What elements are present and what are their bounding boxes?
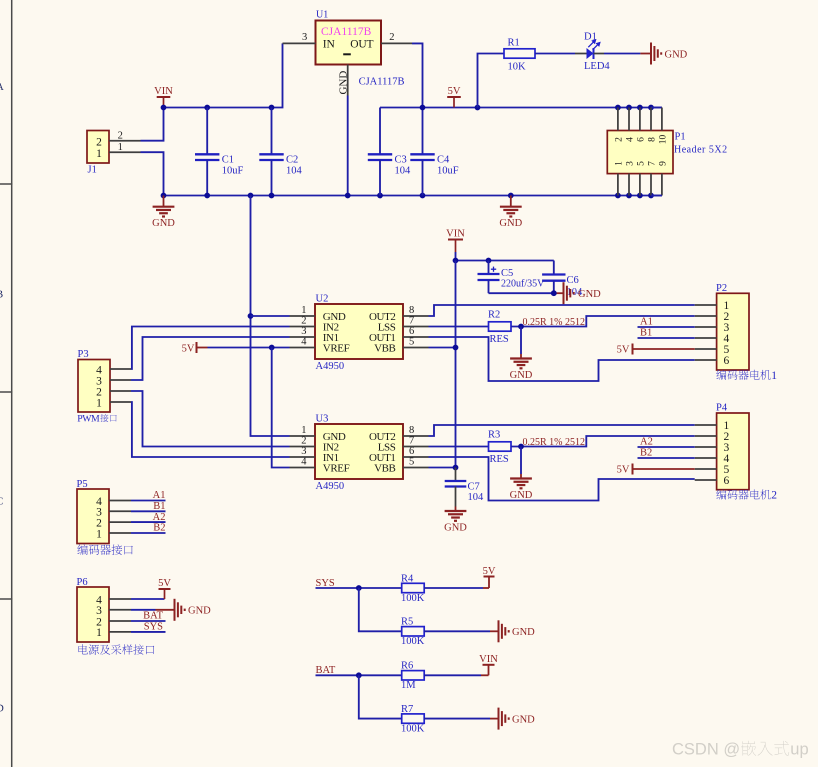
wire R1 to D1 bbox=[535, 53, 575, 55]
LED D1 LED4 bbox=[575, 32, 610, 73]
svg-text:R6: R6 bbox=[401, 661, 413, 672]
svg-text:GND: GND bbox=[499, 218, 522, 229]
sheet border vertical line bbox=[11, 0, 13, 767]
wire R3 to P4.2 bbox=[511, 436, 695, 447]
svg-text:P4: P4 bbox=[716, 403, 728, 414]
svg-text:GND: GND bbox=[578, 289, 601, 300]
svg-text:VREF: VREF bbox=[323, 342, 350, 354]
power port 5V (P4.5) bbox=[617, 464, 695, 476]
svg-text:8: 8 bbox=[409, 305, 414, 316]
wire SYS down to R5 bbox=[359, 588, 402, 631]
ground symbol R2 bbox=[510, 354, 533, 381]
svg-text:1: 1 bbox=[301, 425, 306, 436]
wire VIN down bbox=[455, 252, 457, 261]
svg-text:D: D bbox=[0, 703, 4, 715]
svg-text:5: 5 bbox=[409, 457, 414, 468]
wire R4 to 5V bbox=[424, 587, 489, 589]
label 0.25R 1% 2512 (R3) bbox=[523, 437, 586, 448]
U3 right pins 8-5 bbox=[403, 425, 429, 468]
connector P6 power/sampling bbox=[77, 577, 110, 642]
svg-text:R1: R1 bbox=[508, 38, 520, 49]
svg-text:7: 7 bbox=[409, 316, 414, 327]
wire BAT down to R7 bbox=[359, 675, 402, 718]
U1 pin 1 GND bbox=[338, 65, 350, 196]
ground symbol C7 bbox=[444, 507, 467, 534]
U1 pin 3 IN bbox=[283, 32, 316, 43]
junction VREF bbox=[269, 345, 275, 351]
wire C5/C6 bottom rail bbox=[489, 292, 564, 294]
svg-text:RES: RES bbox=[490, 334, 509, 345]
svg-text:8: 8 bbox=[648, 137, 658, 142]
U3 left pins 1-4 bbox=[290, 425, 316, 468]
svg-text:3: 3 bbox=[301, 326, 306, 337]
wire GND rail end to P1 bbox=[651, 195, 662, 197]
net label SYS wire (P6.1) bbox=[131, 622, 166, 633]
resistor R3 0.25R bbox=[488, 430, 511, 452]
svg-text:2: 2 bbox=[301, 316, 306, 327]
power port 5V (P6) bbox=[158, 578, 171, 599]
svg-text:6: 6 bbox=[409, 326, 414, 337]
svg-text:C5: C5 bbox=[501, 268, 513, 279]
svg-text:1: 1 bbox=[96, 528, 102, 540]
wire R5 to GND bar bbox=[424, 630, 499, 632]
svg-text:C: C bbox=[0, 496, 3, 508]
svg-text:GND: GND bbox=[512, 714, 535, 725]
svg-text:D1: D1 bbox=[584, 32, 597, 43]
svg-text:VIN: VIN bbox=[154, 86, 173, 97]
P4 pins bbox=[695, 425, 717, 480]
svg-text:100K: 100K bbox=[401, 636, 425, 647]
P5 pins and net label wires bbox=[109, 490, 166, 534]
power ground bar (C6) bbox=[564, 282, 602, 304]
net label SYS wire bbox=[316, 578, 402, 589]
svg-text:7: 7 bbox=[409, 436, 414, 447]
svg-text:5V: 5V bbox=[483, 566, 496, 577]
svg-text:3: 3 bbox=[96, 605, 102, 617]
wire R6 to VIN bbox=[424, 674, 489, 676]
junction U2.1 bbox=[248, 313, 254, 319]
svg-text:VBB: VBB bbox=[374, 342, 395, 354]
wire P3.1 to U3.IN1 bbox=[131, 402, 290, 457]
svg-text:CSDN @: CSDN @ bbox=[672, 741, 740, 759]
power ground bar (R5) bbox=[499, 620, 536, 642]
wire U2.OUT2 to P2.1 bbox=[429, 305, 695, 316]
svg-text:5: 5 bbox=[637, 161, 647, 166]
svg-text:2: 2 bbox=[771, 490, 777, 502]
svg-text:104: 104 bbox=[468, 492, 485, 503]
svg-text:1: 1 bbox=[771, 370, 777, 382]
svg-text:4: 4 bbox=[626, 137, 636, 142]
svg-text:5V: 5V bbox=[448, 86, 461, 97]
svg-text:U3: U3 bbox=[316, 414, 329, 425]
junction BAT bbox=[356, 672, 362, 678]
svg-text:GND: GND bbox=[665, 49, 688, 60]
svg-text:1M: 1M bbox=[401, 680, 416, 691]
wire D1 to GND bar bbox=[604, 53, 651, 55]
svg-text:1: 1 bbox=[118, 142, 123, 153]
motor driver U2 A4950 bbox=[315, 294, 403, 373]
net label RES (U2) bbox=[490, 334, 509, 345]
U2 left pins 1-4 bbox=[290, 305, 316, 348]
svg-text:5V: 5V bbox=[617, 464, 630, 475]
svg-text:B: B bbox=[0, 289, 3, 301]
svg-text:C1: C1 bbox=[222, 154, 234, 165]
svg-text:BAT: BAT bbox=[143, 611, 163, 622]
ground symbol left bbox=[152, 196, 175, 230]
svg-text:C6: C6 bbox=[567, 275, 579, 286]
svg-text:OUT: OUT bbox=[350, 38, 373, 50]
svg-text:R2: R2 bbox=[488, 310, 500, 321]
P5 label encoder interface bbox=[77, 544, 132, 555]
P2 label encoder motor 1 bbox=[716, 370, 777, 382]
J1 pin 2 bbox=[109, 130, 141, 141]
wire P6.4 to 5V bbox=[131, 598, 165, 600]
capacitor C6 104 bbox=[542, 261, 583, 299]
svg-text:P2: P2 bbox=[716, 283, 727, 294]
svg-text:1: 1 bbox=[96, 397, 102, 409]
wire 5V rail bbox=[380, 107, 662, 109]
svg-text:2: 2 bbox=[301, 436, 306, 447]
svg-text:CJA1117B: CJA1117B bbox=[359, 77, 405, 88]
power ground bar (R7) bbox=[499, 708, 536, 730]
net label BAT wire bbox=[316, 665, 402, 676]
wire VREF down to U3.VREF bbox=[272, 348, 290, 468]
svg-text:GND: GND bbox=[510, 490, 533, 501]
wire J1.2 to VIN rail bbox=[141, 108, 164, 141]
svg-text:VREF: VREF bbox=[323, 462, 350, 474]
P6 pins bbox=[109, 599, 131, 632]
wire VIN vertical to VBB bbox=[455, 261, 457, 469]
svg-text:C4: C4 bbox=[437, 154, 450, 165]
label 0.25R 1% 2512 (R2) bbox=[523, 317, 586, 328]
wire 5V to U2.VREF bbox=[208, 347, 290, 349]
svg-text:IN: IN bbox=[323, 38, 336, 50]
svg-text:SYS: SYS bbox=[144, 622, 163, 633]
P4 label encoder motor 2 bbox=[716, 489, 777, 501]
capacitor C4 10uF bbox=[410, 108, 458, 196]
P3 pins bbox=[110, 369, 131, 402]
junction VIN/C5 bbox=[453, 258, 492, 264]
svg-text:B2: B2 bbox=[153, 523, 165, 534]
wire J1.1 to GND rail bbox=[141, 152, 164, 195]
svg-text:C3: C3 bbox=[395, 154, 407, 165]
svg-text:U2: U2 bbox=[316, 294, 329, 305]
wire to U2 pin1 bbox=[251, 315, 290, 317]
svg-text:A4950: A4950 bbox=[316, 361, 345, 372]
svg-text:100K: 100K bbox=[401, 723, 425, 734]
svg-text:8: 8 bbox=[409, 425, 414, 436]
svg-text:220uf/35V: 220uf/35V bbox=[501, 279, 545, 290]
svg-text:2: 2 bbox=[389, 32, 394, 43]
svg-text:GND: GND bbox=[188, 606, 211, 617]
svg-text:2: 2 bbox=[118, 130, 123, 141]
svg-text:10uF: 10uF bbox=[222, 165, 244, 176]
junction SYS bbox=[356, 585, 362, 591]
wire C5/C6 top rail bbox=[456, 260, 554, 262]
svg-text:A1: A1 bbox=[640, 317, 653, 328]
junction VIN rail bbox=[161, 105, 275, 111]
svg-text:R4: R4 bbox=[401, 573, 414, 584]
svg-text:VIN: VIN bbox=[446, 228, 465, 239]
capacitor C7 104 bbox=[445, 468, 484, 507]
net label BAT wire (P6.2) bbox=[131, 611, 166, 622]
P1 top pins bbox=[618, 108, 662, 131]
resistor R5 100K bbox=[401, 617, 425, 648]
svg-text:B1: B1 bbox=[640, 328, 652, 339]
svg-text:GND: GND bbox=[512, 627, 535, 638]
resistor R1 10K bbox=[504, 38, 535, 73]
resistor R6 1M bbox=[401, 661, 424, 692]
svg-text:P5: P5 bbox=[77, 479, 88, 490]
sheet zone letters bbox=[0, 81, 4, 715]
wire U1.OUT down to 5V rail bbox=[412, 43, 423, 107]
svg-text:3: 3 bbox=[626, 161, 636, 166]
svg-text:3: 3 bbox=[301, 446, 306, 457]
net label B2 wire bbox=[638, 448, 695, 459]
svg-text:1: 1 bbox=[96, 627, 102, 639]
svg-text:104: 104 bbox=[286, 165, 303, 176]
wire P3.4 to U2.IN2 bbox=[131, 327, 290, 370]
motor driver U3 A4950 bbox=[315, 414, 403, 493]
svg-text:9: 9 bbox=[659, 161, 669, 166]
power port 5V (P2.5) bbox=[617, 344, 695, 356]
sheet zone divider y=599 bbox=[0, 598, 12, 600]
svg-text:GND: GND bbox=[338, 71, 350, 95]
P1 bottom pins bbox=[618, 174, 662, 196]
svg-text:4: 4 bbox=[301, 457, 307, 468]
wire U2.VBB to VIN bbox=[429, 347, 456, 349]
svg-text:up: up bbox=[790, 741, 808, 759]
svg-text:1: 1 bbox=[615, 161, 625, 166]
header P1 Header 5X2 bbox=[607, 131, 727, 174]
svg-text:CJA1117B: CJA1117B bbox=[321, 26, 372, 38]
svg-text:J1: J1 bbox=[88, 165, 97, 176]
connector P5 encoder interface bbox=[77, 479, 110, 544]
junction VBB U2 bbox=[453, 345, 459, 351]
net label A1 wire bbox=[638, 317, 695, 328]
resistor R2 0.25R bbox=[488, 310, 511, 332]
wire U3.OUT1 RES loop to P4.6 bbox=[429, 457, 695, 501]
wire R2 to P2.2 bbox=[511, 316, 695, 327]
junctions GND rail bbox=[161, 193, 654, 199]
svg-text:R3: R3 bbox=[488, 430, 500, 441]
watermark CSDN bbox=[672, 741, 809, 759]
connector P4 encoder motor 2 bbox=[716, 403, 749, 490]
wire GND rail bbox=[164, 195, 662, 197]
svg-text:4: 4 bbox=[301, 337, 307, 348]
U2 right pins 8-5 bbox=[403, 305, 429, 348]
svg-text:R7: R7 bbox=[401, 704, 413, 715]
sheet zone divider y=184 bbox=[0, 183, 12, 185]
svg-text:C2: C2 bbox=[286, 154, 298, 165]
power ground bar (P6) bbox=[175, 599, 212, 621]
svg-text:A4950: A4950 bbox=[316, 481, 345, 492]
power port 5V (VREF) bbox=[182, 342, 208, 354]
ground symbol R3 bbox=[510, 474, 533, 501]
power port VIN (top left) bbox=[154, 86, 173, 108]
junction VBB U3 bbox=[453, 465, 459, 471]
svg-text:6: 6 bbox=[409, 446, 414, 457]
svg-text:Header 5X2: Header 5X2 bbox=[674, 145, 728, 156]
wire R7 to GND bar bbox=[424, 718, 499, 720]
svg-text:P6: P6 bbox=[77, 577, 88, 588]
connector P3 PWM bbox=[78, 349, 111, 412]
svg-text:P3: P3 bbox=[78, 349, 89, 360]
svg-text:10uF: 10uF bbox=[437, 165, 459, 176]
connector J1 bbox=[87, 131, 109, 176]
J1 pin 1 bbox=[109, 142, 141, 153]
svg-text:1: 1 bbox=[301, 305, 306, 316]
power port VIN (R6) bbox=[479, 654, 498, 675]
wire R2 junction to ground bbox=[520, 327, 522, 355]
wire U3.VBB to VIN bbox=[429, 467, 456, 469]
svg-text:10K: 10K bbox=[508, 62, 527, 73]
junction R2 bbox=[518, 324, 524, 330]
ground symbol middle bbox=[499, 196, 522, 230]
P6 label power and sampling interface bbox=[79, 644, 155, 654]
junction C6 bottom bbox=[551, 290, 557, 296]
svg-text:LED4: LED4 bbox=[584, 61, 610, 72]
svg-text:A2: A2 bbox=[153, 512, 166, 523]
resistor R7 100K bbox=[401, 704, 425, 735]
wire R3 junction to ground bbox=[520, 447, 522, 475]
U1 pin 2 OUT bbox=[381, 32, 412, 43]
P3 label PWM interface bbox=[77, 413, 116, 424]
svg-text:B1: B1 bbox=[153, 501, 165, 512]
wire U2.OUT1 RES loop to P2.6 bbox=[429, 337, 695, 381]
wire P3.2 to U3.IN2 bbox=[131, 391, 290, 447]
wire 5V rail to R1 bbox=[478, 54, 505, 108]
wire U3.OUT2 to P4.1 bbox=[429, 425, 695, 436]
net label RES (U3) bbox=[490, 454, 509, 465]
svg-text:A2: A2 bbox=[640, 437, 653, 448]
svg-text:RES: RES bbox=[490, 454, 509, 465]
svg-text:A: A bbox=[0, 81, 4, 93]
svg-text:5V: 5V bbox=[158, 578, 171, 589]
power port 5V (R4) bbox=[483, 566, 496, 588]
net label B1 wire bbox=[638, 328, 695, 339]
capacitor C2 104 bbox=[259, 108, 302, 196]
svg-text:GND: GND bbox=[152, 218, 175, 229]
svg-text:100K: 100K bbox=[401, 593, 425, 604]
capacitor C5 220uf/35V bbox=[478, 261, 546, 294]
svg-text:A1: A1 bbox=[153, 490, 166, 501]
net label A2 wire bbox=[638, 437, 695, 448]
svg-text:7: 7 bbox=[648, 161, 658, 166]
power port VIN (middle) bbox=[446, 228, 465, 252]
resistor R4 100K bbox=[401, 573, 425, 604]
connector P2 encoder motor 1 bbox=[716, 283, 749, 370]
svg-text:6: 6 bbox=[724, 475, 730, 487]
svg-text:VBB: VBB bbox=[374, 462, 395, 474]
svg-text:5V: 5V bbox=[617, 344, 630, 355]
svg-text:1: 1 bbox=[96, 148, 102, 160]
svg-text:10: 10 bbox=[659, 135, 669, 145]
junction R3 bbox=[518, 444, 524, 450]
wire P3.3 to U2.IN1 bbox=[131, 337, 290, 380]
regulator U1 CJA1117B bbox=[316, 10, 405, 88]
capacitor C3 104 bbox=[368, 108, 411, 196]
wire U3.LSS to R3 bbox=[429, 446, 489, 448]
wire VIN rail bbox=[164, 43, 283, 107]
capacitor C1 10uF bbox=[195, 108, 243, 196]
svg-text:GND: GND bbox=[444, 522, 467, 533]
sheet zone divider y=392 bbox=[0, 391, 12, 393]
wire U2.LSS to R2 bbox=[429, 326, 489, 328]
svg-text:5V: 5V bbox=[182, 343, 195, 354]
junctions 5V rail bbox=[420, 105, 654, 111]
svg-text:P1: P1 bbox=[675, 132, 686, 143]
wire GND rail down to U2.1/U3.1 bbox=[251, 196, 290, 437]
wire P6.3 to GND bar bbox=[131, 609, 175, 611]
svg-text:PWM: PWM bbox=[77, 413, 100, 424]
svg-text:3: 3 bbox=[302, 32, 307, 43]
svg-text:U1: U1 bbox=[316, 10, 328, 21]
svg-text:5: 5 bbox=[409, 337, 414, 348]
svg-text:6: 6 bbox=[724, 355, 730, 367]
svg-text:GND: GND bbox=[510, 370, 533, 381]
svg-text:B2: B2 bbox=[640, 448, 652, 459]
P2 pins bbox=[695, 305, 717, 360]
svg-text:2: 2 bbox=[615, 137, 625, 142]
svg-text:R5: R5 bbox=[401, 617, 413, 628]
wire 5V rail end to P1 bbox=[651, 107, 662, 109]
power port 5V (top) bbox=[447, 86, 461, 108]
svg-text:VIN: VIN bbox=[479, 654, 498, 665]
power ground bar (LED) bbox=[651, 43, 688, 65]
svg-text:2: 2 bbox=[96, 137, 102, 149]
svg-text:6: 6 bbox=[637, 137, 647, 142]
svg-text:104: 104 bbox=[395, 165, 412, 176]
